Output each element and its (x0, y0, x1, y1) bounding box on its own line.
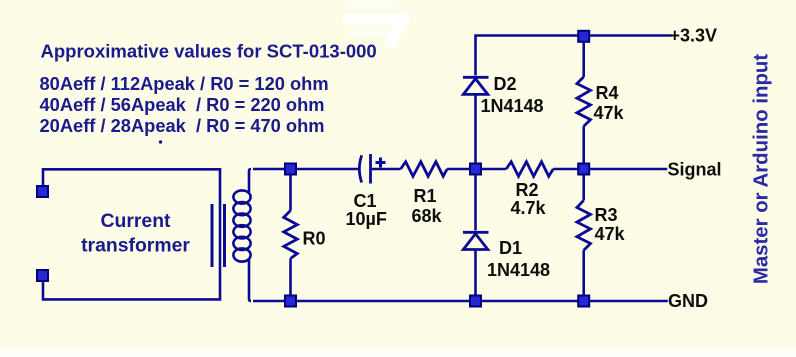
svg-text:40Aeff / 56Apeak / R0 = 220 o: 40Aeff / 56Apeak / R0 = 220 ohm (40, 94, 325, 115)
svg-text:Current: Current (100, 210, 171, 232)
svg-text:D2: D2 (494, 74, 517, 94)
svg-text:+3.3V: +3.3V (670, 26, 718, 46)
svg-text:D1: D1 (499, 238, 522, 258)
svg-text:10µF: 10µF (346, 209, 387, 229)
svg-text:68k: 68k (412, 206, 443, 226)
svg-text:R1: R1 (414, 186, 437, 206)
svg-text:Master or Arduino input: Master or Arduino input (751, 54, 773, 285)
svg-text:80Aeff / 112Apeak / R0 = 120 o: 80Aeff / 112Apeak / R0 = 120 ohm (40, 73, 329, 94)
svg-text:R4: R4 (596, 83, 619, 103)
svg-text:C1: C1 (354, 191, 377, 211)
svg-text:1N4148: 1N4148 (481, 96, 544, 116)
svg-text:47k: 47k (595, 224, 626, 244)
svg-text:Signal: Signal (668, 159, 722, 179)
svg-text:GND: GND (668, 291, 708, 311)
svg-text:4.7k: 4.7k (511, 198, 547, 218)
svg-text:1N4148: 1N4148 (487, 260, 550, 280)
svg-text:47k: 47k (594, 103, 625, 123)
svg-text:R3: R3 (595, 205, 618, 225)
svg-text:R0: R0 (303, 229, 326, 249)
svg-text:Approximative values for SCT-0: Approximative values for SCT-013-000 (41, 41, 377, 62)
svg-text:transformer: transformer (81, 235, 190, 257)
svg-text:20Aeff / 28Apeak / R0 = 470 o: 20Aeff / 28Apeak / R0 = 470 ohm (40, 115, 325, 136)
svg-text:R2: R2 (516, 180, 539, 200)
